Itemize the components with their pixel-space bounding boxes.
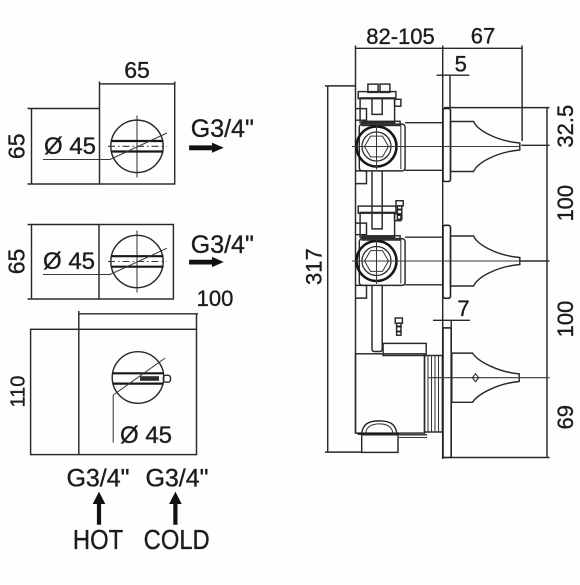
stop screw nub between units 2-3 (395, 318, 402, 323)
outer ring unit1 (357, 127, 397, 167)
centerline unit2 (352, 260, 520, 262)
dimension line 82-105 / 67 (top) (356, 47, 523, 49)
left lug bottom unit1 (356, 171, 367, 184)
extension line top (317) (325, 85, 356, 87)
handle slot B top line (112, 255, 164, 257)
svg-text:65: 65 (124, 57, 150, 83)
hex nut unit1 (365, 136, 389, 157)
escutcheon plate unit3 (443, 328, 451, 458)
arrow right (fig A outlet) (189, 143, 224, 153)
leader line Ø45 B (43, 248, 167, 274)
plate C outer rectangle (31, 329, 197, 454)
leader line Ø45 A (43, 133, 167, 160)
extension line plate1 front (449, 75, 451, 107)
cap unit2 (358, 206, 396, 213)
main body back line (355, 86, 357, 433)
escutcheon plate unit2 (443, 225, 451, 298)
screw boss right (380, 84, 390, 92)
escutcheon plate unit1 (443, 109, 451, 182)
upper body unit1 (360, 98, 395, 123)
flange unit2 (362, 236, 400, 240)
logo marks in handle C (140, 376, 159, 381)
upper body unit2 (360, 212, 395, 237)
extension line plate3 bottom (451, 457, 549, 459)
stop screw nub between units 1-2 (396, 201, 403, 206)
svg-text:67: 67 (471, 24, 495, 49)
screw boss left (368, 84, 378, 92)
dimension line 65 vertical (fig A left) (31, 109, 33, 185)
dashed centerline B (108, 261, 167, 263)
svg-text:317: 317 (302, 248, 327, 285)
extension line plate3 front (450, 320, 452, 328)
block inner edge unit1 (400, 125, 402, 169)
svg-text:Ø 45: Ø 45 (43, 248, 95, 275)
main block unit2 (359, 239, 405, 286)
bottom dome unit3 (362, 421, 397, 434)
vertical centerline A (136, 116, 138, 178)
svg-text:82-105: 82-105 (366, 24, 435, 49)
outer ring unit2 (357, 241, 397, 281)
svg-text:G3/4": G3/4" (145, 465, 208, 493)
extension line plate1 top (444, 107, 550, 109)
cap unit1 (358, 92, 396, 99)
svg-text:69: 69 (553, 405, 578, 429)
handle horn unit1 (451, 122, 520, 172)
leader vertical Ø45 C (112, 395, 114, 443)
vertical centerline unit1 (376, 125, 378, 170)
svg-text:G3/4": G3/4" (66, 465, 129, 493)
hex nut unit2 (365, 251, 389, 272)
extension line wall face (442, 46, 444, 460)
slot in upper body unit2 (372, 212, 382, 229)
top flange unit3 (383, 343, 426, 355)
pipe between unit2 and unit3 (372, 286, 382, 352)
sleeve bottom line unit1 (405, 169, 443, 171)
plate B top edge extended left (28, 224, 100, 226)
svg-text:COLD: COLD (144, 523, 210, 555)
shelf under ribbed sleeve unit3 (399, 434, 427, 436)
centerline unit3 (428, 377, 550, 379)
block inner edge unit2 (400, 240, 402, 284)
arrow right (fig B outlet) (189, 257, 224, 267)
svg-text:Ø 45: Ø 45 (44, 133, 96, 160)
handle bar C top line (113, 372, 164, 374)
sleeve top line unit1 (405, 122, 443, 124)
svg-text:HOT: HOT (73, 523, 123, 555)
handle slot A top line (112, 140, 164, 142)
svg-text:G3/4": G3/4" (191, 231, 254, 259)
diamond marker unit3 (472, 374, 478, 382)
main block unit3 (356, 354, 425, 433)
dimension line 317 (left) (327, 86, 329, 452)
pipe between unit1 and unit2 (371, 171, 373, 213)
extension line handle tip plane (521, 46, 523, 142)
ribbed sleeve unit3 (425, 356, 443, 433)
plate B bottom edge extended left (28, 298, 100, 300)
arrow up cold (169, 492, 182, 525)
handle horn unit3 (452, 353, 519, 402)
left lug top unit1 (356, 109, 367, 121)
svg-text:32.5: 32.5 (553, 105, 578, 148)
left lug bottom unit2 (356, 285, 367, 298)
dimension line 100 (fig C top) (79, 313, 198, 315)
handle bar C right stub (163, 375, 170, 382)
extension line bottom (317) (325, 451, 362, 453)
handle slot B bottom line (112, 266, 164, 268)
svg-text:Ø 45: Ø 45 (120, 422, 172, 449)
right nub unit2 (395, 214, 401, 221)
svg-text:7: 7 (457, 296, 469, 321)
extension line unit2 axis (520, 260, 550, 262)
svg-text:110: 110 (7, 376, 29, 408)
dimension line 5 (437, 74, 470, 76)
centerline unit1 (352, 146, 520, 148)
extension line right for 100 (196, 314, 198, 330)
svg-text:5: 5 (455, 52, 467, 77)
handle slot A bottom line (112, 150, 164, 152)
handle horn unit2 (451, 236, 520, 286)
plate A top edge extended left (extension line for left 65) (28, 108, 100, 110)
handle circle B (111, 235, 163, 287)
block bottom edge unit3 (358, 433, 399, 435)
dimension line 7 (433, 319, 470, 321)
inner ring unit1 (362, 132, 391, 161)
main block unit1 (359, 124, 405, 171)
handle circle C (112, 352, 164, 404)
dashed centerline A (108, 145, 167, 147)
bottom outlet stub unit3 (362, 435, 398, 453)
plate B outline (99, 225, 173, 300)
extension line unit1 axis (521, 144, 549, 146)
vertical centerline B (136, 231, 138, 293)
slot in upper body (372, 98, 382, 115)
plate C inner vertical edge / extension for 100 (78, 311, 80, 455)
svg-text:65: 65 (4, 249, 30, 275)
dimension line 65 vertical (fig B left) (31, 225, 33, 300)
plate A bottom edge extended left (28, 183, 100, 185)
svg-text:100: 100 (553, 185, 578, 222)
svg-text:65: 65 (4, 134, 30, 160)
svg-text:100: 100 (553, 301, 578, 338)
arrow up hot (93, 492, 106, 525)
diagonal pointer C (113, 358, 165, 395)
handle bar C bottom line (113, 383, 164, 385)
handle circle A (111, 120, 163, 172)
extension line left (body back) (355, 46, 357, 86)
inner ring unit2 (362, 247, 391, 276)
flange unit1 (362, 121, 400, 125)
right nub unit1 (395, 99, 401, 106)
vertical centerline unit2 (376, 239, 378, 284)
sleeve bottom line unit2 (405, 284, 443, 286)
plate A outline with top dimension line 65 (100, 82, 175, 185)
left lug top unit2 (356, 223, 367, 235)
svg-text:G3/4": G3/4" (191, 115, 254, 143)
dimension chain line (right) (546, 108, 548, 458)
sleeve top line unit2 (405, 236, 443, 238)
svg-text:100: 100 (197, 286, 234, 311)
